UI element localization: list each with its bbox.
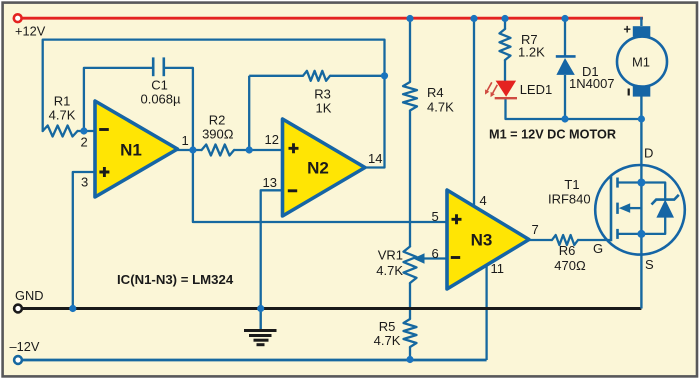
resistor R5 4.7K xyxy=(404,319,417,347)
svg-text:IC(N1-N3) = LM324: IC(N1-N3) = LM324 xyxy=(117,272,234,287)
wire N3 pin 4 supply xyxy=(473,19,475,207)
LED LED1 xyxy=(496,81,516,97)
svg-text:LED1: LED1 xyxy=(520,82,553,97)
svg-text:3: 3 xyxy=(81,175,88,190)
junction xyxy=(189,146,196,153)
junction xyxy=(501,15,508,22)
junction xyxy=(80,127,87,134)
op-amp N2 xyxy=(283,119,366,216)
svg-text:R6: R6 xyxy=(559,243,576,258)
wire N1 output to R2 xyxy=(176,149,202,151)
svg-text:VR1: VR1 xyxy=(378,248,403,263)
svg-text:GND: GND xyxy=(15,288,43,303)
svg-text:4.7K: 4.7K xyxy=(49,107,76,122)
wire R1 to N1 pin 2 xyxy=(78,130,97,132)
svg-text:4.7K: 4.7K xyxy=(427,100,454,115)
wire LED/D1 return line xyxy=(506,100,642,119)
wire R3 row left lead xyxy=(249,75,303,77)
transistor T1 IRF840 xyxy=(595,165,685,255)
motor M1 xyxy=(617,37,667,87)
wire R5 bottom lead xyxy=(409,347,411,360)
resistor R6 470Ω xyxy=(552,235,578,245)
wire R4 to VR1 xyxy=(409,111,411,247)
wire C1 right branch to N1 output xyxy=(165,68,193,150)
junction xyxy=(246,146,253,153)
resistor R1 4.7K xyxy=(43,126,78,137)
svg-text:6: 6 xyxy=(432,246,439,261)
resistor R3 1K xyxy=(303,71,330,81)
svg-text:14: 14 xyxy=(368,151,382,166)
svg-text:470Ω: 470Ω xyxy=(554,258,586,273)
svg-text:2: 2 xyxy=(81,134,88,149)
svg-text:R3: R3 xyxy=(314,87,331,102)
T1 internal junction top xyxy=(637,179,645,187)
svg-text:13: 13 xyxy=(263,175,277,190)
wire N1 output to N3 pin 5 xyxy=(193,150,448,222)
resistor R7 1.2K xyxy=(500,29,511,60)
svg-text:IRF840: IRF840 xyxy=(548,192,591,207)
svg-text:G: G xyxy=(593,241,603,256)
op-amp N3 xyxy=(447,190,529,289)
junction xyxy=(406,356,413,363)
svg-text:4.7K: 4.7K xyxy=(374,333,401,348)
wire R6 to gate xyxy=(578,239,611,241)
svg-text:1: 1 xyxy=(182,133,189,148)
wire R2 to N2 pin 12 xyxy=(234,149,283,151)
svg-text:M1: M1 xyxy=(632,55,650,70)
wire D1 top lead xyxy=(564,19,566,57)
wire drain-source vertical through T1 xyxy=(640,119,642,309)
svg-text:N1: N1 xyxy=(120,141,142,160)
op-amp N1 xyxy=(95,101,178,197)
VR1 wiper arrowhead xyxy=(413,253,425,263)
resistor R2 390Ω xyxy=(202,145,235,156)
wire N1 pin 3 to ground xyxy=(73,172,96,309)
svg-text:7: 7 xyxy=(532,222,539,237)
wire D1 bottom lead xyxy=(564,75,566,119)
svg-text:+: + xyxy=(623,22,631,37)
junction xyxy=(406,15,413,22)
svg-text:M1 = 12V DC MOTOR: M1 = 12V DC MOTOR xyxy=(489,128,616,142)
resistor R4 4.7K xyxy=(403,82,417,111)
wire +12V rail xyxy=(21,17,643,20)
ground xyxy=(260,309,262,331)
junction xyxy=(69,305,76,312)
wire -12V rail xyxy=(21,359,487,362)
wire N2 pin 13 to ground xyxy=(261,190,284,308)
wire VR1 wiper to N3 pin 6 xyxy=(423,257,448,259)
motor - terminal label xyxy=(628,89,630,96)
LED1 light arrows xyxy=(487,82,492,90)
svg-text:1.2K: 1.2K xyxy=(518,45,545,60)
node -12V terminal xyxy=(14,356,22,364)
junction xyxy=(470,15,477,22)
svg-text:T1: T1 xyxy=(564,177,579,192)
svg-text:11: 11 xyxy=(491,261,505,276)
junction xyxy=(561,115,568,122)
svg-text:4: 4 xyxy=(480,193,487,208)
junction xyxy=(257,305,264,312)
junction xyxy=(561,15,568,22)
svg-text:R2: R2 xyxy=(209,112,226,127)
svg-text:R5: R5 xyxy=(379,319,396,334)
diode D1 1N4007 xyxy=(556,55,576,58)
wire R7 to LED1 anode xyxy=(504,60,506,82)
wire divider R4 top lead xyxy=(409,19,411,83)
svg-text:390Ω: 390Ω xyxy=(202,127,234,142)
wire top feedback loop (N2 out to R1) xyxy=(43,40,385,168)
svg-text:R4: R4 xyxy=(427,85,444,100)
T1 internal junction bottom xyxy=(637,230,645,238)
svg-text:N2: N2 xyxy=(307,159,329,178)
wire GND line xyxy=(21,307,641,310)
svg-text:N3: N3 xyxy=(471,231,493,250)
svg-text:+12V: +12V xyxy=(15,24,46,39)
wire R7 top lead xyxy=(504,19,506,30)
node GND terminal xyxy=(14,305,22,313)
svg-text:R1: R1 xyxy=(54,94,71,109)
svg-text:–12V: –12V xyxy=(10,339,40,354)
wire motor top stub xyxy=(640,17,642,26)
wire motor bottom to return node xyxy=(640,96,642,119)
junction xyxy=(638,115,645,122)
svg-text:0.068µ: 0.068µ xyxy=(140,92,181,107)
svg-text:C1: C1 xyxy=(151,78,168,93)
svg-text:12: 12 xyxy=(265,132,279,147)
svg-text:4.7K: 4.7K xyxy=(376,263,403,278)
svg-text:D: D xyxy=(644,146,653,161)
wire VR1 to R5 xyxy=(409,283,411,319)
capacitor C1 0.068µ xyxy=(152,57,155,76)
preset VR1 4.7K xyxy=(404,247,417,284)
wire N3 pin 11 to -12V xyxy=(485,266,487,361)
wire R3 row right lead xyxy=(330,75,385,77)
wire N3 output pin 7 to R6 xyxy=(528,239,552,241)
wire R3 drop to pin 12 xyxy=(248,76,250,150)
junction xyxy=(381,72,388,79)
node +12V terminal xyxy=(14,14,22,22)
svg-text:5: 5 xyxy=(432,209,439,224)
svg-text:1N4007: 1N4007 xyxy=(569,76,615,91)
svg-text:1K: 1K xyxy=(316,101,332,116)
svg-text:S: S xyxy=(645,257,654,272)
wire C1 left branch xyxy=(84,68,152,131)
